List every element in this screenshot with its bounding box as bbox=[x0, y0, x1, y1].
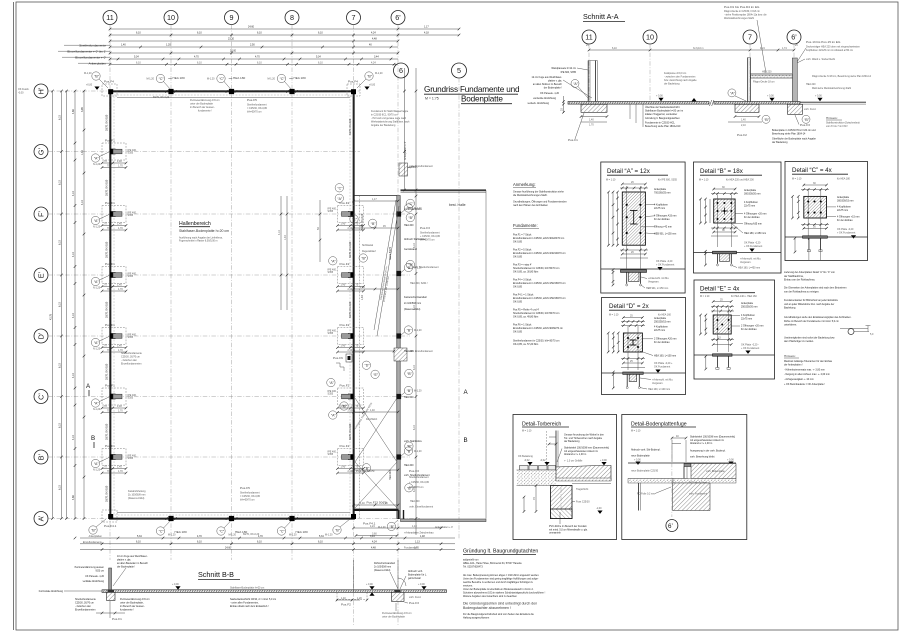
svg-text:+ 0,00: + 0,00 bbox=[418, 583, 425, 586]
svg-text:“B”: “B” bbox=[407, 486, 413, 490]
svg-text:vorh. Bewehrung bleibt: vorh. Bewehrung bleibt bbox=[690, 456, 715, 459]
svg-text:6,10: 6,10 bbox=[413, 425, 416, 430]
svg-text:HEA 200: HEA 200 bbox=[410, 500, 420, 503]
building walls bbox=[111, 92, 354, 519]
gravel stipple left bbox=[517, 470, 556, 486]
svg-text:M = 1:10: M = 1:10 bbox=[700, 295, 710, 298]
svg-text:neue Bodenplatte: neue Bodenplatte bbox=[631, 455, 650, 458]
svg-text:300/300/20 mm: 300/300/20 mm bbox=[744, 192, 761, 195]
svg-text:+0,00: +0,00 bbox=[369, 84, 376, 87]
svg-text:vom 6’ bis 7 im F30 !: vom 6’ bis 7 im F30 ! bbox=[826, 125, 848, 128]
left dims bbox=[792, 196, 794, 218]
svg-text:6,10: 6,10 bbox=[318, 61, 323, 64]
plate bbox=[623, 333, 642, 352]
svg-text:250/250/15 mm: 250/250/15 mm bbox=[654, 320, 671, 323]
svg-text:4,24: 4,24 bbox=[371, 32, 376, 35]
svg-text:OK Belastung: OK Belastung bbox=[518, 455, 533, 458]
bottom dims bbox=[711, 339, 734, 341]
svg-text:unter der Bodenplatte: unter der Bodenplatte bbox=[382, 616, 406, 619]
svg-text:1,40: 1,40 bbox=[589, 119, 594, 122]
horizontal grid dashed lines bbox=[48, 91, 420, 519]
small dims top bbox=[549, 436, 556, 438]
svg-text:Regenablauf: Regenablauf bbox=[362, 250, 376, 253]
foundation pier bbox=[551, 486, 573, 519]
svg-text:22x75 mm: 22x75 mm bbox=[744, 204, 755, 207]
svg-text:-0,02: -0,02 bbox=[540, 459, 546, 462]
svg-text:HEB 901, L=150 mm: HEB 901, L=150 mm bbox=[654, 233, 676, 236]
svg-text:HEA 180: HEA 180 bbox=[175, 530, 187, 534]
right texts bbox=[741, 302, 763, 331]
ground line bbox=[601, 268, 685, 270]
svg-text:M = 1:10: M = 1:10 bbox=[522, 430, 532, 433]
right bay details bbox=[327, 68, 486, 537]
slab hatched right bbox=[556, 466, 611, 481]
svg-text:Pos.13 bis Pos.15 im EG: Pos.13 bis Pos.15 im EG bbox=[806, 40, 841, 44]
svg-text:1,40: 1,40 bbox=[741, 119, 746, 122]
svg-text:7: 7 bbox=[352, 13, 356, 22]
tragschicht strip bbox=[628, 479, 673, 484]
svg-text:Hallenbereich: Hallenbereich bbox=[179, 221, 211, 227]
svg-text:B: B bbox=[464, 437, 468, 444]
svg-text:Bodenplatte: Bodenplatte bbox=[461, 95, 503, 104]
left slab edge dims bbox=[563, 96, 565, 113]
svg-text:Einzelfundamente: Einzelfundamente bbox=[83, 541, 103, 544]
svg-text:30/70, OK-0,80: 30/70, OK-0,80 bbox=[106, 363, 109, 380]
svg-text:E’: E’ bbox=[37, 271, 46, 278]
existing hall north wall going right bbox=[401, 189, 487, 191]
svg-text:4,24: 4,24 bbox=[370, 525, 375, 528]
ground + section bbox=[694, 252, 782, 254]
svg-text:Fundamente:: Fundamente: bbox=[513, 223, 538, 228]
svg-text:der Bauleitung: der Bauleitung bbox=[664, 83, 680, 86]
svg-text:4,13: 4,13 bbox=[72, 373, 75, 378]
svg-text:b/h=50/70 cm: b/h=50/70 cm bbox=[240, 499, 255, 502]
svg-text:42,75: 42,75 bbox=[50, 313, 53, 320]
svg-text:Grundhaltungen siehe den Entwä: Grundhaltungen siehe den Entwässerungspl… bbox=[784, 316, 852, 319]
svg-text:3x 6,10 m: 3x 6,10 m bbox=[693, 47, 704, 50]
svg-text:Pos.D1 bis Pos.D4 im EG: Pos.D1 bis Pos.D4 im EG bbox=[724, 5, 760, 9]
vertical grid dashed lines bbox=[110, 25, 459, 626]
svg-text:6,10: 6,10 bbox=[136, 61, 141, 64]
svg-text:Abbruch Stahlstütze: Abbruch Stahlstütze bbox=[404, 238, 426, 241]
svg-text:“E”: “E” bbox=[373, 373, 379, 377]
existing footing hatched lower bbox=[394, 348, 407, 361]
I beam center bbox=[630, 211, 638, 225]
svg-text:M = 1:75: M = 1:75 bbox=[425, 97, 439, 101]
svg-text:22x75 mm: 22x75 mm bbox=[741, 317, 752, 320]
slab top line bbox=[628, 462, 736, 464]
svg-text:10: 10 bbox=[646, 33, 654, 42]
svg-text:der Stahlbaufirma,: der Stahlbaufirma, bbox=[784, 275, 804, 278]
columns bbox=[587, 61, 589, 102]
svg-text:OK-0,85: OK-0,85 bbox=[513, 301, 523, 304]
svg-text:-0,00: -0,00 bbox=[18, 91, 24, 94]
svg-text:PC-Folie 0,2 mm: PC-Folie 0,2 mm bbox=[689, 482, 707, 485]
svg-text:4,68: 4,68 bbox=[72, 109, 75, 114]
svg-text:neue Bodenplatte C25/30: neue Bodenplatte C25/30 bbox=[631, 470, 659, 473]
inner dashed construction joint bbox=[114, 95, 350, 515]
plate bbox=[714, 199, 735, 223]
existing footing hatched top bbox=[399, 163, 408, 176]
svg-text:1,40: 1,40 bbox=[361, 295, 364, 300]
left new slab bbox=[628, 478, 688, 480]
svg-text:Unstimmigkeiten sind sofort de: Unstimmigkeiten sind sofort der Bauleitu… bbox=[784, 336, 835, 339]
svg-text:- Achsgenauigkeit +- 10 mm: - Achsgenauigkeit +- 10 mm bbox=[784, 378, 814, 381]
dims left of pier bbox=[535, 486, 537, 512]
svg-text:der Bauleitung: der Bauleitung bbox=[772, 141, 788, 144]
right texts bbox=[744, 189, 766, 235]
svg-text:Pos.F4: Pos.F4 bbox=[104, 80, 114, 84]
svg-text:best. Halle: best. Halle bbox=[449, 203, 466, 207]
top dimension chain lines bbox=[58, 26, 460, 66]
svg-text:22x75 mm: 22x75 mm bbox=[837, 209, 848, 212]
svg-text:Grundriss Fundamente und: Grundriss Fundamente und bbox=[424, 85, 520, 94]
svg-text:D’: D’ bbox=[37, 332, 46, 339]
svg-text:22x75 mm: 22x75 mm bbox=[654, 207, 665, 210]
svg-text:6,10: 6,10 bbox=[257, 32, 262, 35]
svg-text:1,74: 1,74 bbox=[782, 47, 787, 50]
svg-text:30/70, OK-0,80: 30/70, OK-0,80 bbox=[106, 485, 109, 502]
svg-text:vorh. Stahlstütze: vorh. Stahlstütze bbox=[404, 208, 422, 211]
svg-text:4,70: 4,70 bbox=[194, 56, 199, 59]
svg-text:5,34: 5,34 bbox=[316, 56, 321, 59]
svg-text:+Ankerplatten Zwischenbau: +Ankerplatten Zwischenbau bbox=[404, 532, 434, 535]
svg-text:vertikale Abdichtung: vertikale Abdichtung bbox=[83, 580, 105, 583]
left column bbox=[109, 568, 112, 590]
svg-text:vorh. Streifenfundament: vorh. Streifenfundament bbox=[413, 266, 439, 269]
svg-text:fundamente !: fundamente ! bbox=[120, 609, 134, 612]
svg-text:der Bodenplatte !: der Bodenplatte ! bbox=[544, 87, 563, 90]
left dims bbox=[608, 192, 610, 245]
svg-text:Flägro-Decke 18 cm: Flägro-Decke 18 cm bbox=[753, 81, 775, 84]
svg-text:30/70, OK-0,80: 30/70, OK-0,80 bbox=[349, 301, 352, 318]
svg-text:Abstand a =+ 1,00 m: Abstand a =+ 1,00 m bbox=[690, 442, 712, 445]
svg-text:+ 0,00: + 0,00 bbox=[727, 459, 734, 462]
svg-text:Vergussm.: Vergussm. bbox=[740, 261, 752, 264]
svg-text:OK Fundament: OK Fundament bbox=[654, 366, 671, 369]
columns: right wall bbox=[328, 201, 365, 232]
plate bbox=[713, 315, 731, 334]
svg-text:“B”: “B” bbox=[390, 525, 396, 529]
svg-text:für HEA 220 und HEA 200: für HEA 220 und HEA 200 bbox=[726, 179, 754, 182]
svg-text:700/260/25 mm: 700/260/25 mm bbox=[654, 191, 671, 194]
svg-text:24,60: 24,60 bbox=[248, 26, 255, 29]
svg-text:Durchfahrt: Durchfahrt bbox=[366, 418, 377, 421]
svg-text:Tragschicht: Tragschicht bbox=[576, 488, 589, 491]
svg-text:OK-0,85: OK-0,85 bbox=[513, 241, 523, 244]
svg-text:OK-0,85: OK-0,85 bbox=[513, 256, 523, 259]
bottom dimension chain lines bbox=[74, 532, 455, 551]
svg-text:Hinweis:: Hinweis: bbox=[784, 354, 796, 358]
svg-text:Stahlfaser-Bodenplatte h=20 cm: Stahlfaser-Bodenplatte h=20 cm bbox=[179, 229, 229, 233]
svg-text:6,10: 6,10 bbox=[413, 487, 416, 492]
svg-text:“C”: “C” bbox=[409, 202, 415, 206]
svg-text:24,60: 24,60 bbox=[225, 546, 232, 549]
svg-text:Kanterschutzwandteil: Kanterschutzwandteil bbox=[404, 296, 427, 299]
svg-text:HEA 180, L=450 mm: HEA 180, L=450 mm bbox=[738, 267, 760, 270]
svg-text:lokalen Traggerüst, verdeckter: lokalen Traggerüst, verdeckter bbox=[645, 113, 677, 116]
svg-text:(Dauerverzinkt): (Dauerverzinkt) bbox=[128, 497, 145, 500]
svg-text:vorh. Fund.: vorh. Fund. bbox=[804, 108, 816, 111]
svg-text:+0,00: +0,00 bbox=[86, 84, 93, 87]
section bbox=[621, 270, 647, 273]
svg-text:Pos.F2: Pos.F2 bbox=[341, 603, 351, 607]
svg-text:Pos.F6: Pos.F6 bbox=[333, 356, 343, 360]
svg-text:der Bodenplatte !: der Bodenplatte ! bbox=[117, 566, 136, 569]
svg-text:4,13: 4,13 bbox=[72, 191, 75, 196]
svg-text:3,60: 3,60 bbox=[372, 533, 377, 536]
svg-text:HEB 901, L=150 mm: HEB 901, L=150 mm bbox=[646, 287, 668, 290]
svg-text:+- 1,0 cm Gefälle: +- 1,0 cm Gefälle bbox=[564, 460, 583, 463]
svg-text:4,13: 4,13 bbox=[278, 230, 281, 235]
svg-text:6’: 6’ bbox=[668, 523, 673, 530]
svg-text:Maximal zulässige Toleranzen f: Maximal zulässige Toleranzen für den Ein… bbox=[784, 360, 833, 363]
svg-text:6,10: 6,10 bbox=[59, 180, 62, 185]
svg-text:1,17: 1,17 bbox=[424, 26, 429, 29]
svg-text:Pos.F5: Pos.F5 bbox=[247, 98, 257, 102]
svg-text:M = 1:10: M = 1:10 bbox=[609, 314, 619, 317]
bottom dims bbox=[801, 224, 829, 226]
svg-text:Detail “E” = 4x: Detail “E” = 4x bbox=[700, 286, 740, 293]
joint steel fitting bbox=[684, 464, 691, 467]
svg-text:der Ankerplatten !: der Ankerplatten ! bbox=[784, 364, 803, 367]
svg-text:Pos.F5: Pos.F5 bbox=[240, 486, 250, 490]
svg-text:Die Gründungssohlen sind unbed: Die Gründungssohlen sind unbedingt durch… bbox=[463, 602, 537, 606]
svg-text:+ C25/30, OK-0,80: + C25/30, OK-0,80 bbox=[409, 481, 430, 484]
dashed inner line right bay bbox=[359, 196, 361, 519]
svg-text:6,10: 6,10 bbox=[59, 363, 62, 368]
svg-text:Pos.F1: Pos.F1 bbox=[112, 617, 122, 621]
top dims bbox=[803, 184, 827, 186]
svg-text:HEA 200: HEA 200 bbox=[389, 470, 392, 480]
svg-text:+ 0,00: + 0,00 bbox=[767, 95, 774, 98]
svg-text:“B”: “B” bbox=[361, 257, 367, 261]
svg-text:HEA 220: HEA 220 bbox=[806, 83, 816, 86]
svg-text:Einzelfundamenten: Einzelfundamenten bbox=[75, 609, 96, 612]
corner squares bbox=[108, 89, 113, 94]
svg-text:für den Einbau: für den Einbau bbox=[744, 216, 760, 219]
svg-text:Hinweis:: Hinweis: bbox=[826, 116, 838, 120]
columns: left wall bbox=[91, 138, 137, 169]
bay bottom wall step bbox=[354, 509, 399, 511]
svg-text:Pos.F3: Pos.F3 bbox=[800, 123, 810, 127]
existing wall column 6' bbox=[792, 58, 797, 102]
svg-text:5: 5 bbox=[457, 66, 461, 75]
svg-text:für HEA 140 u. HEA 160: für HEA 140 u. HEA 160 bbox=[731, 295, 757, 298]
ground + section bbox=[694, 354, 775, 356]
svg-text:6,10: 6,10 bbox=[413, 365, 416, 370]
svg-text:HEA 200: HEA 200 bbox=[404, 464, 414, 467]
svg-text:Einbau von der Rohbaufirma.: Einbau von der Rohbaufirma. bbox=[784, 279, 815, 282]
svg-text:1,40: 1,40 bbox=[121, 44, 126, 47]
svg-text:+ 0,00: + 0,00 bbox=[656, 95, 663, 98]
svg-text:Einzelfundamenten: Einzelfundamenten bbox=[121, 363, 142, 366]
right texts bbox=[564, 434, 609, 457]
svg-text:Ankerplatten: Ankerplatten bbox=[89, 535, 103, 538]
level triangles bbox=[175, 586, 180, 589]
svg-text:für den Einbau: für den Einbau bbox=[741, 328, 757, 331]
svg-text:6: 6 bbox=[399, 66, 403, 75]
svg-text:M = 1:10: M = 1:10 bbox=[699, 179, 709, 182]
svg-text:+ OK Fundament: + OK Fundament bbox=[741, 347, 760, 350]
svg-text:6,10: 6,10 bbox=[257, 61, 262, 64]
svg-text:Haftung ausgeschlossen: Haftung ausgeschlossen bbox=[463, 617, 490, 620]
svg-text:2,50: 2,50 bbox=[250, 44, 255, 47]
top dims bbox=[623, 317, 643, 319]
svg-text:5,34: 5,34 bbox=[319, 535, 324, 538]
svg-text:5,34: 5,34 bbox=[134, 56, 139, 59]
middle F2 foundation dashed bbox=[337, 592, 367, 599]
svg-text:4,70: 4,70 bbox=[255, 56, 260, 59]
svg-text:5,34: 5,34 bbox=[137, 535, 142, 538]
right texts bbox=[654, 188, 677, 236]
svg-text:Wandpaneele b=12 cm: Wandpaneele b=12 cm bbox=[551, 67, 576, 70]
svg-text:Bodengutachter abzunehmen !: Bodengutachter abzunehmen ! bbox=[463, 606, 511, 610]
svg-text:9: 9 bbox=[230, 13, 234, 22]
svg-text:6,10: 6,10 bbox=[318, 541, 323, 544]
svg-text:1,40: 1,40 bbox=[360, 502, 365, 505]
svg-text:4,13: 4,13 bbox=[72, 435, 75, 440]
ground + section bbox=[785, 236, 868, 238]
svg-text:+ OK Fundament: + OK Fundament bbox=[837, 232, 856, 235]
svg-text:Einbau direkt nach dem Erdaush: Einbau direkt nach dem Erdaushub ! bbox=[230, 605, 269, 608]
columns: top wall bbox=[147, 74, 185, 94]
svg-text:Die Oberseiten der Ankerplatte: Die Oberseiten der Ankerplatten sind nac… bbox=[784, 287, 847, 290]
svg-text:Detail “B” = 18x: Detail “B” = 18x bbox=[700, 168, 744, 175]
right vertical dim line bbox=[403, 68, 417, 535]
svg-text:HEA 200: HEA 200 bbox=[404, 396, 414, 399]
svg-text:6,10: 6,10 bbox=[318, 32, 323, 35]
grid circles top bbox=[103, 11, 467, 79]
svg-text:unterfahren.: unterfahren. bbox=[784, 324, 797, 327]
svg-text:Streifenfundamente: Streifenfundamente bbox=[79, 44, 106, 48]
svg-text:23,10: 23,10 bbox=[228, 38, 235, 41]
svg-text:- Höhenkotenversatz max. +- 3,: - Höhenkotenversatz max. +- 3,00 mm bbox=[784, 368, 825, 371]
svg-text:6,10: 6,10 bbox=[413, 243, 416, 248]
svg-text:6,10: 6,10 bbox=[59, 240, 62, 245]
left dims bbox=[700, 315, 702, 334]
svg-text:gehts Detail: gehts Detail bbox=[408, 577, 421, 580]
svg-text:Aussparung in der vorh. Bodenp: Aussparung in der vorh. Bodenpl. bbox=[690, 450, 726, 453]
svg-text:6,10: 6,10 bbox=[59, 423, 62, 428]
svg-text:Stahlfaser-Bodenplatte h=20 cm: Stahlfaser-Bodenplatte h=20 cm bbox=[230, 587, 264, 590]
svg-text:Pos.F4.1: Pos.F4.1 bbox=[104, 524, 117, 528]
svg-text:6,10: 6,10 bbox=[59, 485, 62, 490]
svg-text:6,10: 6,10 bbox=[197, 61, 202, 64]
chain labels left bbox=[67, 44, 106, 66]
svg-text:Abstand a =+ 1,00 m: Abstand a =+ 1,00 m bbox=[564, 453, 586, 456]
scattered detail circles right bay bbox=[327, 184, 415, 492]
svg-text:Weitere Angaben des Gutachters: Weitere Angaben des Gutachters sind zu b… bbox=[463, 595, 518, 598]
svg-text:Vergussm.: Vergussm. bbox=[648, 280, 660, 283]
svg-text:-1,00: -1,00 bbox=[596, 507, 602, 510]
top dims bbox=[713, 188, 736, 190]
svg-text:die Werkstattzeichnungen-Stahl: die Werkstattzeichnungen-Stahl. bbox=[513, 194, 548, 197]
svg-text:66/70, OK-0,20: 66/70, OK-0,20 bbox=[243, 533, 260, 536]
left wall below bbox=[638, 483, 640, 511]
svg-text:Abbruch vorh. Stb-Bodenpl.: Abbruch vorh. Stb-Bodenpl. bbox=[631, 449, 661, 452]
existing foundation block bbox=[673, 483, 711, 511]
svg-text:für den Einbau: für den Einbau bbox=[654, 218, 670, 221]
svg-text:Angabe der Bauleitung: Angabe der Bauleitung bbox=[371, 124, 396, 127]
svg-text:1,48: 1,48 bbox=[81, 150, 84, 155]
svg-text:30/70, OK-0,80: 30/70, OK-0,80 bbox=[106, 114, 109, 131]
left dims bbox=[607, 333, 609, 352]
svg-text:6,10: 6,10 bbox=[136, 32, 141, 35]
svg-text:22,00: 22,00 bbox=[230, 50, 237, 53]
svg-text:4,18: 4,18 bbox=[424, 32, 429, 35]
svg-text:Pos.F2: Pos.F2 bbox=[737, 133, 747, 137]
svg-text:Werkstattzeichnungen-Stahl: Werkstattzeichnungen-Stahl bbox=[724, 17, 754, 20]
dims between walls bbox=[352, 198, 399, 506]
svg-text:Detail “C” = 4x: Detail “C” = 4x bbox=[792, 167, 833, 174]
svg-text:1,40: 1,40 bbox=[341, 597, 346, 600]
svg-text:11: 11 bbox=[585, 33, 592, 42]
svg-text:vorh. Fund.: vorh. Fund. bbox=[409, 596, 421, 599]
svg-text:7: 7 bbox=[748, 33, 752, 42]
slab with break bbox=[568, 102, 709, 105]
ground + section bbox=[602, 372, 686, 374]
svg-text:6,10: 6,10 bbox=[197, 32, 202, 35]
svg-text:B’: B’ bbox=[37, 453, 46, 460]
zwischenbau ceiling slab bbox=[751, 75, 793, 78]
svg-text:Pos.F3: Pos.F3 bbox=[409, 469, 419, 473]
svg-text:50/75, OK-0,20: 50/75, OK-0,20 bbox=[361, 213, 364, 230]
bottom dims plan bbox=[620, 249, 648, 251]
svg-text:2x 100/50/8 mm: 2x 100/50/8 mm bbox=[404, 302, 421, 305]
svg-text:1,70: 1,70 bbox=[589, 124, 594, 127]
svg-text:Fundamentanker für Blitzschutz: Fundamentanker für Blitzschutz an jeder … bbox=[784, 299, 839, 302]
slab bbox=[102, 590, 447, 593]
svg-text:4,24: 4,24 bbox=[760, 47, 765, 50]
svg-text:M = 1:10: M = 1:10 bbox=[631, 430, 641, 433]
svg-text:Bauleitung.: Bauleitung. bbox=[784, 307, 796, 310]
right existing slab hatched bbox=[691, 464, 736, 479]
svg-text:vorh. Fundament: vorh. Fundament bbox=[689, 493, 707, 496]
svg-text:30/70, OK-0,80: 30/70, OK-0,80 bbox=[106, 423, 109, 440]
svg-text:4,13: 4,13 bbox=[72, 252, 75, 257]
top right texts bbox=[690, 436, 735, 459]
svg-text:1,40: 1,40 bbox=[370, 409, 375, 412]
svg-text:HEA 200: HEA 200 bbox=[404, 224, 414, 227]
svg-text:Bewehrung siehe Plan 1804+010: Bewehrung siehe Plan 1804+010 bbox=[645, 125, 681, 128]
plate bbox=[804, 196, 827, 218]
inner wall lines + corner levels bbox=[117, 96, 350, 98]
right F3 foundation bbox=[392, 592, 405, 601]
dims below left footing bbox=[580, 115, 583, 118]
grid circles left bbox=[34, 84, 48, 526]
existing hall south wall going right bbox=[401, 519, 487, 522]
svg-text:vorh. Wand u. Sockel bleibt: vorh. Wand u. Sockel bleibt bbox=[806, 58, 835, 61]
svg-text:F’: F’ bbox=[37, 211, 46, 217]
svg-text:HEA 200, S204 !: HEA 200, S204 ! bbox=[410, 282, 428, 285]
svg-text:HEA 180, L=450 mm: HEA 180, L=450 mm bbox=[744, 232, 766, 235]
svg-text:+ OK Fundament: + OK Fundament bbox=[656, 264, 675, 267]
svg-text:ummanteln: ummanteln bbox=[549, 532, 561, 535]
svg-text:Rinne 50/70: Rinne 50/70 bbox=[389, 246, 392, 260]
wall above bbox=[555, 431, 557, 468]
svg-text:Kopfbolzen 22/125 mm im Abstan: Kopfbolzen 22/125 mm im Abstand a=50 cm bbox=[806, 49, 853, 52]
svg-text:1,48: 1,48 bbox=[420, 535, 425, 538]
svg-text:“C”: “C” bbox=[338, 186, 344, 190]
svg-text:Detail “A” = 12x: Detail “A” = 12x bbox=[607, 168, 651, 175]
dims below middle footing bbox=[734, 115, 737, 118]
svg-text:6,10: 6,10 bbox=[59, 302, 62, 307]
existing hall wall right bbox=[397, 196, 400, 519]
svg-text:30/70, OK-0,80: 30/70, OK-0,80 bbox=[106, 179, 109, 196]
svg-text:Fugenschnitte in Raster 6,00/5: Fugenschnitte in Raster 6,00/5,00 m bbox=[179, 240, 218, 243]
svg-text:6’: 6’ bbox=[791, 33, 797, 42]
